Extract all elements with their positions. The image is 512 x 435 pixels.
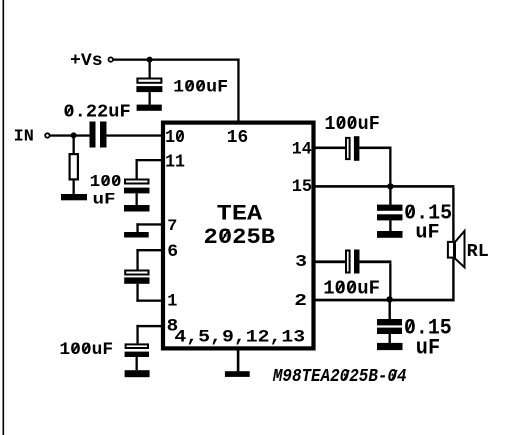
svg-text:0.22uF: 0.22uF (63, 101, 130, 123)
capacitor C3 100uF (positive hollow plate) (125, 180, 149, 184)
wire C1 to ground (149, 92, 151, 105)
ground GND2 (61, 194, 87, 200)
svg-text:3: 3 (295, 252, 307, 271)
svg-text:uF: uF (415, 222, 439, 245)
svg-text:2025B: 2025B (204, 224, 276, 250)
capacitor C8 0.15uF (plate 2) (377, 214, 403, 220)
wire +Vs rail down to pin 16 (237, 59, 239, 121)
wire pin 1 stub (136, 300, 161, 302)
wire pin 6 down to C4 (136, 249, 138, 270)
capacitor C5 100uF (positive hollow plate) (126, 344, 148, 348)
resistor R1 (70, 154, 78, 179)
svg-text:16: 16 (227, 126, 249, 148)
capacitor C7 100uF (solid plate) (354, 250, 360, 274)
capacitor C7 100uF (positive hollow plate) (346, 251, 350, 273)
capacitor C3 100uF (solid plate) (124, 188, 150, 194)
terminal +Vs (109, 57, 113, 61)
wire speaker RL down to pin 2 line (452, 259, 454, 302)
wire C2 to pin 10 (107, 134, 162, 136)
wire +Vs node down to C1 (149, 60, 151, 78)
wire pin 8 stub (136, 325, 161, 327)
wire pin 8 down to C5 (136, 325, 138, 344)
capacitor C4 100uF (solid plate) (124, 277, 149, 283)
svg-text:uF: uF (416, 336, 440, 361)
junction +Vs node (147, 57, 153, 63)
wire pin 15 to speaker (316, 185, 455, 188)
wire pin 11 down to C3 (136, 159, 138, 179)
capacitor C4 100uF (positive hollow plate) (125, 271, 148, 275)
capacitor C9 0.15uF (plate 2) (377, 328, 402, 334)
svg-text:11: 11 (165, 153, 185, 173)
capacitor C2 0.22uF (plate 2) (100, 122, 107, 148)
svg-text:1: 1 (167, 292, 177, 312)
svg-text:2: 2 (294, 291, 307, 310)
svg-text:+Vs: +Vs (70, 52, 103, 71)
wire pin 15 node down to C8 (389, 188, 391, 205)
svg-text:14: 14 (292, 140, 312, 160)
ground GND4 (pin 7) (124, 232, 149, 238)
svg-text:4,5,9,12,13: 4,5,9,12,13 (174, 328, 305, 348)
svg-text:7: 7 (167, 217, 177, 235)
svg-text:100uF: 100uF (59, 340, 113, 360)
junction pin 15 node (387, 183, 393, 189)
svg-text:6: 6 (167, 242, 178, 262)
wire C6 right (359, 147, 391, 150)
wire C9 to ground (389, 334, 391, 343)
svg-text:M98TEA2025B-04: M98TEA2025B-04 (272, 366, 406, 387)
wire C8 to ground (389, 220, 391, 231)
capacitor C5 100uF (solid plate) (125, 352, 149, 357)
wire pin 14 stub (316, 147, 346, 150)
wire pin 15 node down to speaker RL (452, 188, 454, 241)
wire input node down to R1 (73, 137, 75, 154)
ground GND8 (377, 343, 403, 350)
op-amp/IC U1 TEA2025B body (163, 123, 314, 349)
svg-text:RL: RL (467, 241, 489, 262)
wire pin 2 to speaker (316, 299, 455, 302)
svg-text:100uF: 100uF (173, 77, 228, 97)
wire down to pin 2 node (389, 263, 391, 299)
wire C7 right (360, 260, 392, 263)
capacitor C1 100uF (solid plate) (136, 86, 162, 92)
junction input node (71, 132, 77, 138)
capacitor C9 0.15uF (plate 1) (377, 319, 402, 325)
ground GND7 (377, 231, 403, 238)
svg-text:uF: uF (93, 191, 116, 209)
ground GND5 (125, 370, 150, 377)
speaker RL (cone) (455, 231, 465, 267)
ground GND6 (225, 371, 250, 377)
wire pin 3 stub (316, 260, 346, 263)
capacitor C1 100uF (positive hollow plate) (137, 79, 161, 83)
wire pin 11 stub (136, 159, 162, 161)
wire +Vs rail to pin 16 corner (113, 59, 240, 61)
wire IC ground pins 4,5,9,12,13 (237, 350, 240, 371)
wire down to pin 15 node (389, 147, 391, 187)
capacitor C6 100uF (solid plate) (354, 136, 360, 161)
wire IN to C2 (50, 134, 90, 136)
wire pin 7 down (136, 223, 138, 232)
svg-text:TEA: TEA (217, 201, 263, 226)
wire C5 to ground (136, 357, 138, 370)
wire C3 to ground (136, 193, 138, 205)
wire pin 2 node down to C9 (389, 301, 391, 319)
ground GND3 (124, 205, 150, 212)
svg-text:IN: IN (14, 128, 34, 147)
terminal IN (45, 133, 49, 137)
wire pin 6 stub (136, 249, 161, 251)
wire C4 to pin 1 (136, 284, 138, 302)
ground GND1 (137, 105, 162, 111)
junction pin 2 node (386, 296, 392, 302)
svg-text:100: 100 (90, 173, 122, 192)
capacitor C6 100uF (positive hollow plate) (346, 138, 350, 159)
wire R1 to ground (73, 181, 75, 195)
capacitor C8 0.15uF (plate 1) (377, 205, 403, 211)
svg-text:15: 15 (292, 177, 312, 197)
wire pin 7 stub (136, 223, 161, 225)
capacitor C2 0.22uF (plate 1) (90, 122, 96, 148)
speaker RL (driver box) (448, 242, 454, 258)
